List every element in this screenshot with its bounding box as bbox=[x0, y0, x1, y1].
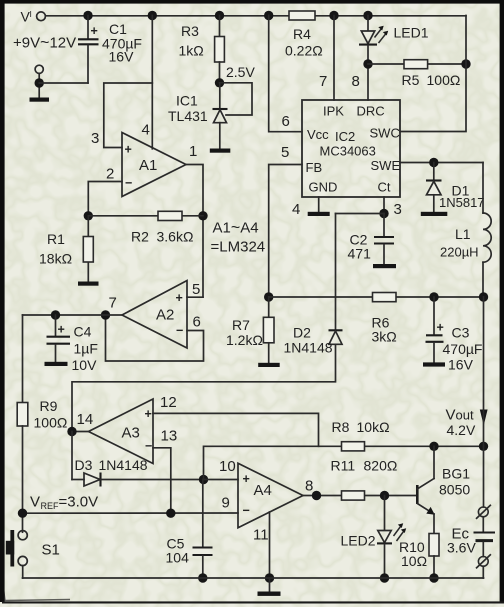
ground (input) bbox=[30, 98, 50, 102]
border frame bbox=[0, 0, 504, 4]
ground (C4) bbox=[45, 362, 68, 366]
op-amp U A2 bbox=[109, 281, 201, 349]
transistor Q BG1 8050 bbox=[417, 446, 470, 533]
diode D3 1N4148 bbox=[72, 432, 204, 487]
svg-text:+: + bbox=[58, 323, 65, 337]
svg-text:L1: L1 bbox=[455, 226, 471, 242]
ground (D1) bbox=[421, 212, 448, 216]
wire A2 pin5 from A1 output bbox=[187, 296, 203, 298]
resistor R9 100R bbox=[17, 398, 67, 532]
wire IC2 pin6 Vcc bbox=[264, 11, 302, 132]
IC1 TL431 bbox=[168, 83, 252, 149]
svg-text:LED2: LED2 bbox=[341, 533, 376, 549]
resistor R2 3.6k feedback bbox=[84, 211, 208, 244]
svg-text:220µH: 220µH bbox=[440, 245, 479, 260]
svg-text:4: 4 bbox=[142, 122, 150, 139]
wire A1 pin3 from 2.5V rail bbox=[104, 83, 153, 148]
svg-text:Vcc: Vcc bbox=[307, 127, 329, 142]
svg-text:D2: D2 bbox=[293, 325, 311, 341]
wire SWC to top rail bbox=[400, 16, 466, 132]
svg-text:C4: C4 bbox=[74, 324, 92, 340]
switch S1 bbox=[6, 530, 60, 578]
svg-text:7: 7 bbox=[109, 295, 117, 312]
svg-text:GND: GND bbox=[309, 180, 338, 195]
svg-text:10V: 10V bbox=[72, 357, 98, 373]
inductor L1 220uH bbox=[440, 163, 491, 298]
svg-text:+: + bbox=[437, 321, 444, 335]
svg-text:2.5V: 2.5V bbox=[226, 64, 255, 80]
svg-text:9: 9 bbox=[222, 495, 230, 512]
svg-text:REF: REF bbox=[41, 501, 60, 511]
svg-text:4.2V: 4.2V bbox=[447, 422, 476, 438]
node negative input terminal bbox=[35, 65, 89, 97]
svg-text:4: 4 bbox=[292, 201, 300, 218]
capacitor C3 470uF 16V bbox=[426, 297, 483, 373]
svg-text:−: − bbox=[176, 324, 183, 338]
wire A3 pin12 to R8 node bbox=[153, 413, 319, 446]
svg-text:10: 10 bbox=[219, 458, 236, 475]
battery Ec 3.6V bbox=[447, 446, 495, 578]
wire A1 output pin1 bbox=[186, 165, 203, 298]
svg-text:IC2: IC2 bbox=[335, 129, 355, 144]
svg-text:R5: R5 bbox=[402, 72, 420, 88]
ground (bottom rail) bbox=[258, 578, 281, 596]
diode D2 1N4148 with loop to A3 output bbox=[72, 214, 343, 432]
resistor R10 10R bbox=[399, 534, 439, 583]
svg-text:12: 12 bbox=[160, 394, 177, 411]
svg-text:Vout: Vout bbox=[446, 407, 474, 424]
capacitor C4 1uF 10V bbox=[47, 315, 98, 373]
svg-text:1N4148: 1N4148 bbox=[284, 340, 333, 356]
svg-text:+: + bbox=[145, 407, 152, 421]
svg-text:3: 3 bbox=[91, 130, 99, 147]
svg-text:R8: R8 bbox=[332, 419, 350, 435]
ground (IC2) bbox=[308, 212, 330, 216]
LED LED2 bbox=[341, 496, 407, 583]
svg-text:R3: R3 bbox=[181, 23, 199, 39]
svg-text:A1~A4: A1~A4 bbox=[213, 220, 259, 237]
svg-text:2: 2 bbox=[106, 166, 114, 183]
svg-text:A4: A4 bbox=[254, 482, 272, 499]
wire IC2 pin4 GND bbox=[292, 197, 319, 218]
wire A4 pin10 stub bbox=[204, 479, 239, 481]
svg-text:A2: A2 bbox=[156, 307, 174, 324]
node VI input terminal bbox=[21, 9, 46, 25]
node A4 pin10 junction bbox=[199, 446, 341, 484]
svg-text:IPK: IPK bbox=[323, 104, 344, 119]
svg-text:R4: R4 bbox=[293, 26, 311, 42]
svg-text:3.6V: 3.6V bbox=[447, 540, 476, 556]
svg-text:−: − bbox=[125, 176, 132, 190]
svg-text:R11: R11 bbox=[331, 458, 356, 474]
svg-text:18kΩ: 18kΩ bbox=[39, 251, 72, 267]
op-amp U A1 bbox=[91, 122, 197, 197]
svg-text:10Ω: 10Ω bbox=[401, 553, 427, 569]
resistor R7 1.2k bbox=[226, 297, 274, 363]
ground (R7) bbox=[258, 363, 280, 367]
wire A3 pin13 to Vref bbox=[153, 448, 171, 513]
scan artifact bottom-left bbox=[4, 589, 71, 601]
node 2.5V bbox=[215, 64, 256, 88]
svg-text:D3: D3 bbox=[75, 457, 93, 473]
wire IC2 pin7 IPK bbox=[319, 11, 339, 100]
resistor R3 1k bbox=[179, 11, 225, 83]
svg-text:1µF: 1µF bbox=[74, 341, 98, 357]
svg-text:11: 11 bbox=[253, 527, 269, 544]
svg-text:BG1: BG1 bbox=[442, 466, 470, 482]
svg-text:+9V~12V: +9V~12V bbox=[13, 35, 76, 52]
svg-text:100Ω: 100Ω bbox=[427, 72, 461, 88]
label Vout 4.2V with arrow bbox=[446, 407, 488, 439]
svg-text:=3.0V: =3.0V bbox=[59, 494, 99, 511]
svg-text:820Ω: 820Ω bbox=[364, 458, 398, 474]
svg-text:SWE: SWE bbox=[371, 158, 401, 173]
wire A2 pin6 feedback loop bbox=[106, 315, 204, 361]
resistor R5 100R bbox=[363, 59, 470, 88]
wire A3 output node bbox=[67, 427, 88, 436]
svg-text:3.6kΩ: 3.6kΩ bbox=[157, 229, 194, 245]
svg-text:100Ω: 100Ω bbox=[34, 415, 68, 431]
svg-text:5: 5 bbox=[281, 144, 289, 161]
svg-text:SWC: SWC bbox=[370, 126, 400, 141]
svg-text:471: 471 bbox=[348, 246, 372, 262]
resistor R11 820R bbox=[331, 458, 417, 501]
wire A1 pin2 bbox=[88, 182, 122, 216]
capacitor C1 470uF 16V bbox=[78, 11, 142, 83]
wire left rail down from A2 output bbox=[22, 315, 24, 403]
svg-text:8: 8 bbox=[352, 73, 360, 90]
svg-text:R1: R1 bbox=[47, 231, 65, 247]
wire IC2 pin3 Ct bbox=[336, 197, 402, 218]
svg-text:8050: 8050 bbox=[439, 482, 470, 498]
svg-text:DRC: DRC bbox=[357, 104, 385, 119]
svg-text:C3: C3 bbox=[452, 325, 470, 341]
svg-text:+: + bbox=[176, 291, 183, 305]
svg-text:1kΩ: 1kΩ bbox=[179, 43, 204, 59]
op-amp U A3 bbox=[77, 394, 178, 464]
wire right rail L1 to Vout node bbox=[483, 297, 485, 446]
resistor R4 0.22R bbox=[285, 11, 323, 59]
svg-text:=LM324: =LM324 bbox=[211, 239, 266, 256]
svg-text:R7: R7 bbox=[232, 317, 250, 333]
svg-text:FB: FB bbox=[306, 160, 323, 175]
svg-text:−: − bbox=[145, 439, 152, 453]
ground (C2) bbox=[373, 264, 396, 268]
svg-text:3kΩ: 3kΩ bbox=[372, 329, 397, 345]
svg-text:7: 7 bbox=[319, 73, 327, 90]
wire Vref rail bbox=[18, 509, 238, 518]
svg-text:I: I bbox=[30, 9, 32, 19]
svg-text:IC1: IC1 bbox=[176, 93, 198, 109]
svg-text:0.22Ω: 0.22Ω bbox=[285, 43, 323, 59]
svg-text:1.2kΩ: 1.2kΩ bbox=[226, 332, 263, 348]
svg-text:+: + bbox=[125, 143, 132, 157]
svg-text:1N4148: 1N4148 bbox=[99, 457, 148, 473]
IC2 MC34063 box bbox=[302, 100, 400, 197]
svg-text:16V: 16V bbox=[109, 49, 135, 65]
svg-text:S1: S1 bbox=[42, 542, 60, 559]
svg-text:R9: R9 bbox=[40, 398, 58, 414]
svg-text:+: + bbox=[91, 24, 98, 38]
resistor R1 18k bbox=[39, 216, 93, 282]
wire SWE row bbox=[400, 158, 483, 167]
wire IC2 pin5 FB bbox=[269, 144, 302, 297]
wire top supply rail bbox=[45, 15, 466, 17]
label Vref=3.0V bbox=[30, 494, 98, 512]
wire A4 pin11 to bottom rail bbox=[265, 512, 274, 583]
ground (TL431) bbox=[210, 149, 231, 153]
ground (C3) bbox=[423, 362, 445, 366]
svg-text:−: − bbox=[243, 504, 250, 518]
svg-text:A1: A1 bbox=[139, 157, 157, 174]
svg-text:470µF: 470µF bbox=[443, 341, 483, 357]
svg-text:V: V bbox=[30, 494, 40, 511]
resistor R6 3k bbox=[372, 293, 397, 345]
svg-text:LED1: LED1 bbox=[394, 25, 429, 41]
svg-text:TL431: TL431 bbox=[168, 108, 208, 124]
svg-text:1: 1 bbox=[189, 143, 197, 160]
svg-text:Ct: Ct bbox=[378, 180, 391, 195]
svg-text:3: 3 bbox=[394, 201, 402, 218]
svg-text:R2: R2 bbox=[131, 229, 149, 245]
wire A2 output to left bbox=[23, 310, 123, 319]
svg-text:MC34063: MC34063 bbox=[320, 144, 376, 159]
wire FB mid rail bbox=[264, 292, 488, 301]
resistor R8 10k bbox=[332, 419, 489, 451]
wire bottom rail bbox=[23, 577, 484, 579]
svg-text:104: 104 bbox=[166, 550, 190, 566]
wire A1 pin4 supply drop bbox=[148, 11, 157, 149]
svg-text:13: 13 bbox=[161, 428, 178, 445]
svg-text:16V: 16V bbox=[448, 357, 474, 373]
ground (R1) bbox=[78, 282, 99, 286]
wire A4 output pin8 row bbox=[303, 491, 342, 500]
svg-text:1N5817: 1N5817 bbox=[439, 195, 485, 210]
svg-text:6: 6 bbox=[282, 113, 290, 130]
label A1~A4 = LM324 bbox=[211, 220, 266, 256]
LED LED1 bbox=[359, 11, 429, 100]
svg-text:6: 6 bbox=[193, 314, 201, 331]
svg-text:5: 5 bbox=[192, 281, 200, 298]
svg-text:A3: A3 bbox=[122, 425, 140, 442]
svg-text:+: + bbox=[243, 472, 250, 486]
svg-text:8: 8 bbox=[305, 478, 313, 495]
capacitor C2 471 bbox=[348, 214, 395, 265]
svg-text:14: 14 bbox=[77, 411, 94, 428]
diode D1 1N5817 bbox=[426, 163, 485, 212]
capacitor C5 104 bbox=[166, 480, 213, 583]
svg-text:10kΩ: 10kΩ bbox=[357, 419, 390, 435]
op-amp U A4 bbox=[219, 458, 313, 544]
